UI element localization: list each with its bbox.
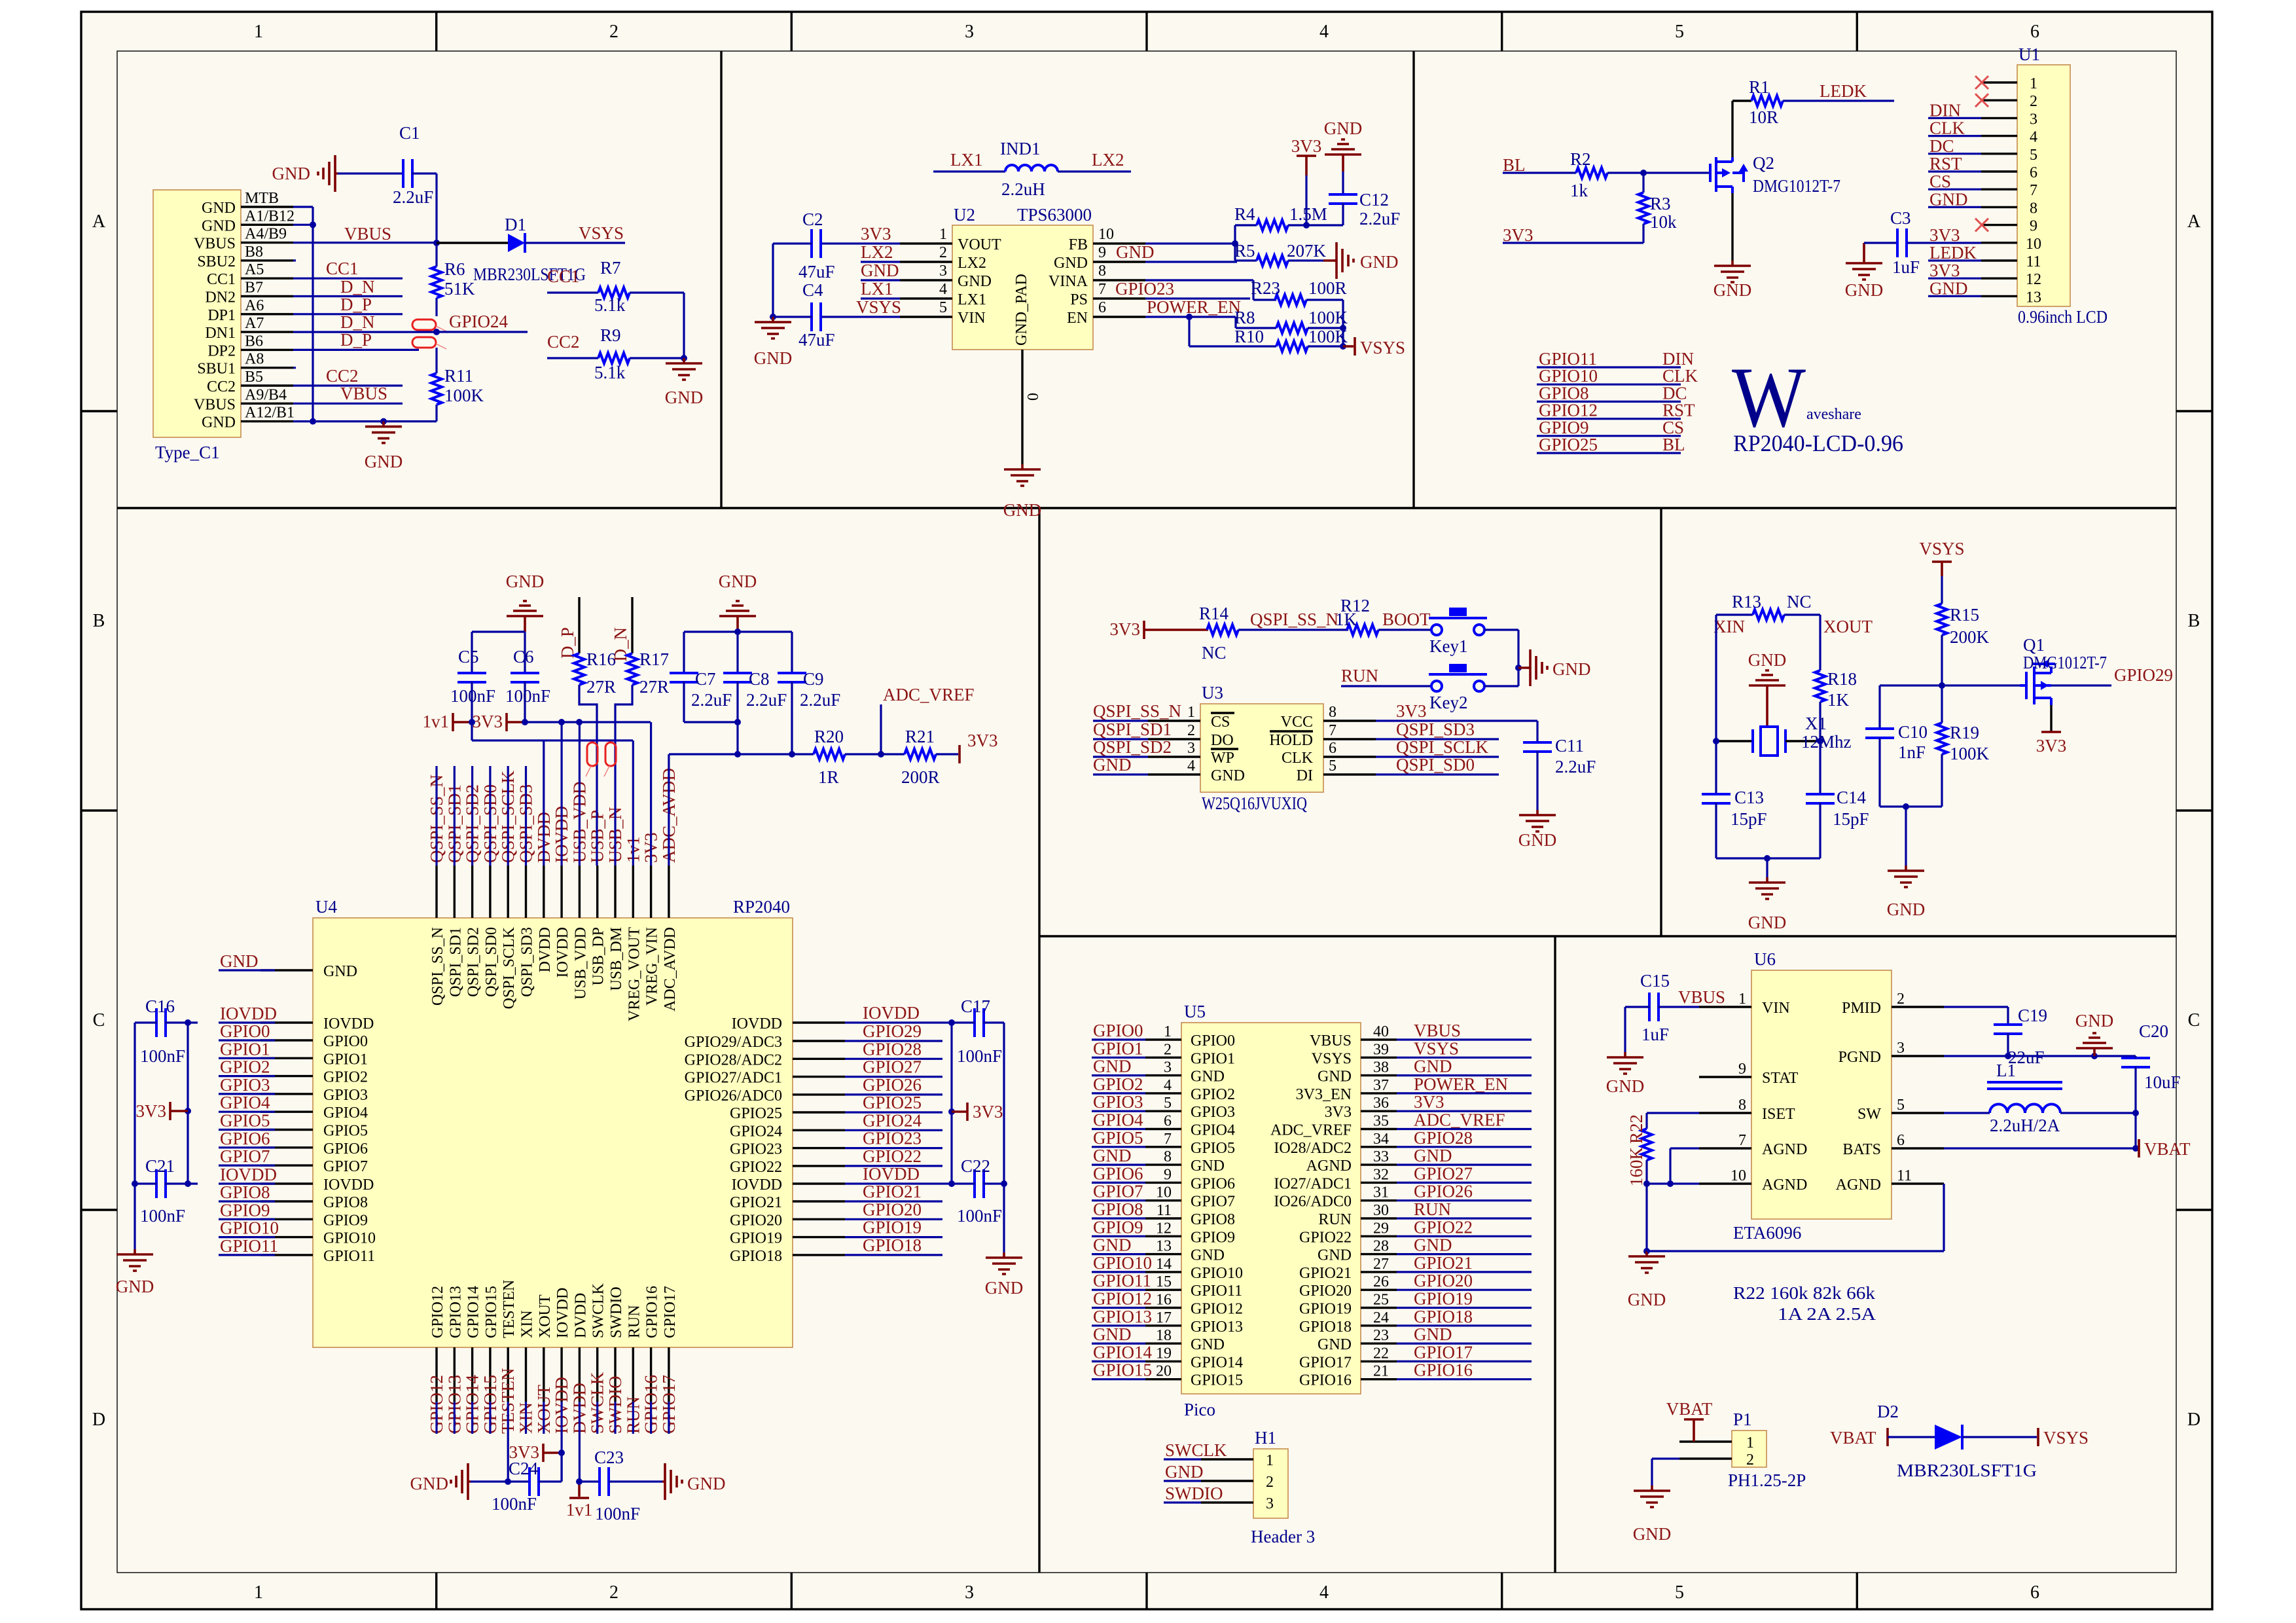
svg-text:A1/B12: A1/B12 <box>245 208 295 225</box>
svg-text:35: 35 <box>1373 1113 1389 1130</box>
svg-text:TESTEN: TESTEN <box>501 1280 518 1338</box>
svg-text:LX2: LX2 <box>861 242 893 262</box>
svg-text:10: 10 <box>1098 226 1114 243</box>
svg-text:R4: R4 <box>1234 204 1255 224</box>
U4 right pin GPIO20 <box>793 1218 845 1220</box>
svg-text:GND: GND <box>1093 1235 1132 1255</box>
wire AGND10 <box>1647 1182 1699 1184</box>
ground below crystal <box>1766 858 1768 877</box>
svg-text:GPIO10: GPIO10 <box>323 1230 376 1247</box>
svg-text:VSYS: VSYS <box>2043 1428 2089 1448</box>
wire <box>560 1402 562 1482</box>
wire <box>861 279 900 281</box>
svg-text:C1: C1 <box>399 123 420 143</box>
wire <box>579 1402 581 1482</box>
svg-text:R7: R7 <box>600 258 621 278</box>
svg-text:GND: GND <box>1633 1524 1672 1544</box>
power VSYS <box>1343 345 1354 348</box>
svg-text:IOVDD: IOVDD <box>732 1176 782 1194</box>
wire ADC_VREF <box>880 704 882 754</box>
svg-text:21: 21 <box>1373 1363 1389 1380</box>
wire <box>293 313 403 315</box>
svg-text:GPIO29: GPIO29 <box>863 1021 922 1041</box>
U6 pin 2 PMID <box>1892 1006 1944 1008</box>
svg-text:GPIO5: GPIO5 <box>323 1123 368 1140</box>
svg-text:GND: GND <box>1414 1235 1452 1255</box>
svg-text:VBUS: VBUS <box>344 224 391 244</box>
junction <box>734 629 741 635</box>
svg-text:GND: GND <box>1093 1324 1132 1344</box>
U4 right pin IOVDD <box>793 1182 845 1184</box>
svg-text:6: 6 <box>1897 1132 1905 1149</box>
svg-text:24: 24 <box>1373 1309 1389 1326</box>
U5 pin 4 GPIO2 <box>1145 1092 1181 1094</box>
svg-text:GPIO29: GPIO29 <box>2114 665 2173 685</box>
svg-text:A: A <box>92 211 106 232</box>
U2 pin 8 VINA <box>1093 279 1145 281</box>
U4 bottom pin XOUT <box>543 1347 545 1402</box>
wire C10-R19 gnd bus <box>1880 805 1942 807</box>
U4 top pin VREG_VOUT <box>632 866 634 918</box>
svg-text:17: 17 <box>1156 1309 1172 1326</box>
svg-text:12Mhz: 12Mhz <box>1801 732 1852 752</box>
svg-text:3V3_EN: 3V3_EN <box>1296 1086 1352 1103</box>
svg-text:POWER_EN: POWER_EN <box>1147 297 1241 317</box>
svg-text:IOVDD: IOVDD <box>323 1176 374 1194</box>
ground at U2 pad <box>1004 464 1041 486</box>
svg-text:GPIO11: GPIO11 <box>220 1236 278 1256</box>
svg-text:IND1: IND1 <box>1000 139 1041 158</box>
U4 bottom pin GPIO12 <box>435 1347 437 1402</box>
svg-text:47uF: 47uF <box>798 330 835 350</box>
svg-text:QSPI_SD0: QSPI_SD0 <box>1396 755 1475 775</box>
U4 right pin GPIO22 <box>793 1165 845 1167</box>
svg-text:QSPI_SCLK: QSPI_SCLK <box>501 926 518 1009</box>
svg-text:GND_PAD: GND_PAD <box>1013 274 1030 346</box>
svg-text:GND: GND <box>116 1277 154 1296</box>
svg-text:GPIO8: GPIO8 <box>220 1182 270 1202</box>
wire <box>1503 242 1643 244</box>
svg-text:VSYS: VSYS <box>856 297 901 317</box>
capacitor C2 <box>812 229 821 258</box>
junction <box>1232 240 1238 247</box>
capacitor C20 <box>2121 1058 2150 1067</box>
junction <box>1764 855 1770 862</box>
svg-text:GPIO29/ADC3: GPIO29/ADC3 <box>685 1034 782 1051</box>
svg-text:4: 4 <box>1319 22 1329 42</box>
svg-text:6: 6 <box>1329 740 1336 757</box>
power 1v1 <box>578 1482 581 1497</box>
svg-text:GPIO20: GPIO20 <box>730 1212 782 1229</box>
svg-text:2: 2 <box>2030 93 2037 110</box>
svg-text:ADC_VREF: ADC_VREF <box>883 685 975 704</box>
svg-text:VBAT: VBAT <box>1666 1399 1713 1419</box>
svg-text:R19: R19 <box>1950 723 1979 742</box>
svg-text:GND: GND <box>1054 255 1088 272</box>
svg-text:40: 40 <box>1373 1023 1389 1040</box>
wire <box>293 420 437 422</box>
svg-text:1nF: 1nF <box>1898 742 1926 762</box>
U4 left pin GND <box>260 969 313 971</box>
section divider vertical rp2040-flash <box>1038 508 1040 1573</box>
U3 pin 6 CLK <box>1323 756 1376 757</box>
svg-text:5: 5 <box>1675 22 1684 42</box>
U2 pin 1 VOUT <box>900 242 952 244</box>
svg-text:5.1k: 5.1k <box>594 295 626 315</box>
svg-text:7: 7 <box>1329 722 1336 739</box>
U5 pin 13 GND <box>1145 1253 1181 1255</box>
wire XIN vertical <box>1715 615 1717 795</box>
wire AGND7 <box>1670 1147 1699 1149</box>
svg-text:GND: GND <box>1887 900 1926 919</box>
svg-text:Key2: Key2 <box>1429 693 1467 712</box>
svg-text:100nF: 100nF <box>595 1504 640 1523</box>
svg-text:QSPI_SS_N: QSPI_SS_N <box>429 927 446 1006</box>
U2 pin 10 FB <box>1093 242 1145 244</box>
svg-text:USB_DM: USB_DM <box>608 927 625 991</box>
svg-text:GND: GND <box>202 200 236 217</box>
svg-text:AGND: AGND <box>1762 1176 1807 1194</box>
resistor R5 <box>1235 259 1257 261</box>
svg-text:GND: GND <box>754 348 793 368</box>
svg-text:HOLD: HOLD <box>1269 732 1313 749</box>
svg-text:10: 10 <box>1156 1184 1172 1201</box>
svg-text:DN2: DN2 <box>205 289 236 306</box>
svg-text:3V3: 3V3 <box>1929 225 1960 245</box>
wire right gnd bus <box>1003 1023 1005 1252</box>
svg-text:3V3: 3V3 <box>473 712 503 731</box>
svg-text:SWCLK: SWCLK <box>1165 1440 1227 1460</box>
junction <box>2132 1110 2139 1116</box>
svg-text:GND: GND <box>365 452 403 471</box>
capacitor C24 <box>471 1480 529 1482</box>
resistor R4 <box>1235 224 1257 226</box>
svg-text:12: 12 <box>2026 271 2041 288</box>
svg-text:C22: C22 <box>961 1156 990 1176</box>
svg-text:GPIO18: GPIO18 <box>1414 1307 1473 1326</box>
svg-text:6: 6 <box>1164 1113 1172 1130</box>
wire <box>293 384 403 386</box>
svg-text:GPIO13: GPIO13 <box>1191 1319 1243 1336</box>
wire <box>1341 685 1431 687</box>
wire <box>454 766 456 866</box>
svg-text:GPIO19: GPIO19 <box>863 1218 922 1237</box>
capacitor C8 <box>736 632 738 674</box>
svg-text:LX1: LX1 <box>950 150 983 170</box>
svg-text:1: 1 <box>254 22 263 42</box>
diff pair marker <box>605 742 616 766</box>
junction <box>310 221 316 228</box>
svg-text:MTB: MTB <box>245 190 279 207</box>
svg-text:C24: C24 <box>509 1459 539 1478</box>
capacitor C7 <box>683 632 685 674</box>
svg-text:VBAT: VBAT <box>2144 1139 2191 1159</box>
svg-text:100K: 100K <box>444 386 484 405</box>
svg-text:GPIO0: GPIO0 <box>323 1033 368 1050</box>
svg-text:U1: U1 <box>2018 45 2040 64</box>
U5 pin 5 GPIO3 <box>1145 1110 1181 1112</box>
svg-text:6: 6 <box>2030 1582 2039 1603</box>
svg-text:FB: FB <box>1069 236 1088 253</box>
svg-text:100nF: 100nF <box>957 1206 1002 1226</box>
U5 pin 20 GPIO15 <box>1145 1378 1181 1380</box>
resistor R21 <box>905 749 936 759</box>
svg-text:10: 10 <box>1731 1167 1746 1184</box>
P1 pin 2 <box>1679 1457 1732 1459</box>
U4 bottom pin XIN <box>525 1347 527 1402</box>
svg-text:2: 2 <box>609 22 619 42</box>
svg-text:DMG1012T-7: DMG1012T-7 <box>2023 653 2107 672</box>
U5 pin 37 3V3_EN <box>1361 1092 1397 1094</box>
U4 left pin GPIO5 <box>260 1129 313 1131</box>
svg-text:CLK: CLK <box>1282 750 1314 767</box>
svg-text:GPIO24: GPIO24 <box>730 1123 782 1140</box>
svg-text:1: 1 <box>1746 1434 1754 1451</box>
wire C2-C4 bus <box>773 242 812 244</box>
transistor Q2 DMG1012T-7 <box>1710 157 1716 192</box>
svg-text:BL: BL <box>1662 435 1685 454</box>
svg-text:SBU2: SBU2 <box>197 253 236 270</box>
U5 pin 39 VSYS <box>1361 1057 1397 1059</box>
svg-text:9: 9 <box>1738 1061 1746 1078</box>
svg-text:GND: GND <box>719 572 757 591</box>
svg-text:CC2: CC2 <box>547 332 580 352</box>
wire <box>543 1402 545 1434</box>
wire <box>293 403 403 405</box>
svg-text:IO28/ADC2: IO28/ADC2 <box>1274 1140 1352 1157</box>
svg-text:GND: GND <box>272 164 311 183</box>
svg-text:B6: B6 <box>245 333 263 350</box>
svg-text:ADC_VREF: ADC_VREF <box>1414 1110 1505 1130</box>
wire R23-R8-R10 <box>1342 300 1344 346</box>
U5 pin 24 GPIO18 <box>1361 1324 1397 1326</box>
resistor R8 <box>1236 327 1276 329</box>
svg-text:GPIO5: GPIO5 <box>1191 1140 1235 1157</box>
U6 pin 10 AGND <box>1699 1182 1751 1184</box>
ground right bus <box>986 1252 1022 1274</box>
ground at C3 <box>1863 243 1865 258</box>
svg-text:GND: GND <box>1191 1158 1225 1175</box>
svg-text:CC1: CC1 <box>547 266 580 286</box>
svg-text:VSYS: VSYS <box>1414 1038 1459 1058</box>
ground at Q2 <box>1731 193 1733 261</box>
svg-text:160K: 160K <box>1626 1147 1646 1187</box>
svg-text:DP1: DP1 <box>207 307 236 324</box>
svg-text:R5: R5 <box>1234 241 1255 261</box>
wire EN <box>1145 316 1236 318</box>
svg-text:U2: U2 <box>954 205 975 225</box>
svg-text:GPIO22: GPIO22 <box>730 1159 782 1176</box>
svg-text:11: 11 <box>1897 1167 1912 1184</box>
U4 bottom pin DVDD <box>579 1347 581 1402</box>
svg-text:GPIO14: GPIO14 <box>465 1286 482 1338</box>
svg-text:ADC_VREF: ADC_VREF <box>1270 1122 1352 1139</box>
svg-text:GPIO1: GPIO1 <box>323 1051 368 1068</box>
wire GPIO29 row <box>1880 684 2020 686</box>
svg-text:R22 160k 82k 66k: R22 160k 82k 66k <box>1733 1283 1876 1303</box>
ground at R9 <box>666 358 702 380</box>
svg-text:D: D <box>2187 1410 2200 1430</box>
svg-text:3: 3 <box>2030 111 2037 128</box>
svg-text:9: 9 <box>1098 244 1106 261</box>
svg-text:CC2: CC2 <box>207 378 236 395</box>
svg-text:GPIO27: GPIO27 <box>863 1057 922 1077</box>
svg-text:GND: GND <box>1324 119 1363 138</box>
svg-text:X1: X1 <box>1805 714 1827 733</box>
svg-text:1: 1 <box>2030 75 2037 92</box>
U6 pin 6 BATS <box>1892 1147 1944 1149</box>
U5 pin 26 GPIO20 <box>1361 1288 1397 1290</box>
U2 pin 5 VIN <box>900 316 952 318</box>
junction <box>1640 170 1647 176</box>
svg-text:RP2040-LCD-0.96: RP2040-LCD-0.96 <box>1733 430 1903 456</box>
wire <box>668 754 670 866</box>
svg-text:2: 2 <box>1266 1474 1274 1491</box>
svg-text:GPIO8: GPIO8 <box>323 1194 368 1211</box>
wire <box>471 766 473 866</box>
svg-text:BATS: BATS <box>1842 1141 1881 1158</box>
svg-text:USB_VDD: USB_VDD <box>572 927 589 1000</box>
svg-text:10k: 10k <box>1650 212 1677 232</box>
svg-text:GND: GND <box>1191 1247 1225 1264</box>
U4 top pin VREG_VIN <box>650 866 652 918</box>
svg-text:3V3: 3V3 <box>1291 136 1322 156</box>
U4 left pin GPIO6 <box>260 1146 313 1148</box>
svg-text:GPIO9: GPIO9 <box>1191 1229 1235 1246</box>
svg-text:GPIO6: GPIO6 <box>1191 1175 1235 1192</box>
capacitor C23 <box>579 1480 600 1482</box>
svg-text:1: 1 <box>1738 991 1746 1008</box>
wire <box>293 259 296 261</box>
svg-text:GPIO6: GPIO6 <box>220 1129 270 1148</box>
svg-text:RUN: RUN <box>626 1305 643 1338</box>
capacitor C13 <box>1702 794 1731 803</box>
power VBAT <box>2138 1139 2140 1158</box>
svg-text:GND: GND <box>985 1278 1024 1298</box>
svg-text:GPIO1: GPIO1 <box>220 1039 270 1059</box>
U4 top pin QSPI_SCLK <box>507 866 509 918</box>
svg-text:12: 12 <box>1156 1220 1172 1237</box>
svg-text:R21: R21 <box>905 727 935 746</box>
svg-text:GPIO12: GPIO12 <box>429 1286 446 1338</box>
U3 pin 8 VCC <box>1323 720 1376 721</box>
wire GND bus vertical <box>312 207 314 422</box>
svg-text:GND: GND <box>1845 280 1884 300</box>
svg-text:C3: C3 <box>1890 208 1911 228</box>
svg-text:R2: R2 <box>1570 149 1591 169</box>
U4 left pin GPIO9 <box>260 1218 313 1220</box>
svg-text:U6: U6 <box>1754 949 1776 969</box>
svg-text:2.2uF: 2.2uF <box>393 187 433 207</box>
IC U6 ETA6096 <box>1751 970 1892 1219</box>
svg-text:4: 4 <box>939 281 947 298</box>
U4 bottom pin SWDIO <box>614 1347 616 1402</box>
svg-text:RP2040: RP2040 <box>733 897 790 917</box>
svg-text:SBU1: SBU1 <box>197 361 236 378</box>
U1 pin 10 <box>1981 242 2017 244</box>
svg-text:27R: 27R <box>586 677 616 697</box>
svg-text:5.1k: 5.1k <box>594 363 626 382</box>
U4 left pin IOVDD <box>260 1021 313 1023</box>
wire <box>525 766 527 866</box>
svg-text:R22: R22 <box>1626 1114 1646 1144</box>
ground at keys <box>1518 666 1530 669</box>
svg-text:XIN: XIN <box>519 1310 536 1338</box>
svg-text:20: 20 <box>1156 1363 1172 1380</box>
U3 pin 4 GND <box>1148 773 1200 775</box>
U5 pin 28 GND <box>1361 1253 1397 1255</box>
svg-text:QSPI_SS_N: QSPI_SS_N <box>1093 701 1181 721</box>
svg-text:R9: R9 <box>600 325 621 345</box>
svg-text:13: 13 <box>2026 289 2041 306</box>
svg-text:GPIO25: GPIO25 <box>730 1105 782 1122</box>
ground left bus <box>117 1249 153 1271</box>
svg-text:3V3: 3V3 <box>1396 701 1427 721</box>
capacitor C4 <box>812 302 821 331</box>
svg-text:0: 0 <box>1025 393 1042 401</box>
U4 left pin GPIO4 <box>260 1110 313 1112</box>
wire <box>579 722 581 866</box>
svg-text:R3: R3 <box>1650 194 1671 213</box>
U4 left pin GPIO10 <box>260 1236 313 1238</box>
svg-text:GPIO24: GPIO24 <box>863 1110 922 1130</box>
svg-text:VIN: VIN <box>958 310 986 327</box>
capacitor C1 <box>338 172 404 174</box>
U4 right pin GPIO21 <box>793 1200 845 1202</box>
svg-text:QSPI_SD1: QSPI_SD1 <box>1093 720 1172 739</box>
U4 top pin QSPI_SD1 <box>454 866 456 918</box>
svg-text:C19: C19 <box>2018 1006 2047 1025</box>
svg-text:A6: A6 <box>245 297 264 314</box>
U5 pin 22 GPIO17 <box>1361 1360 1397 1362</box>
svg-text:23: 23 <box>1373 1327 1389 1344</box>
wire <box>293 278 403 280</box>
U2 pin 3 GND <box>900 279 952 281</box>
junction <box>1643 1180 1650 1187</box>
svg-text:4: 4 <box>1187 757 1195 775</box>
wire SW row <box>1944 1112 1990 1114</box>
svg-text:SWCLK: SWCLK <box>590 1283 607 1338</box>
svg-text:32: 32 <box>1373 1166 1389 1183</box>
svg-text:DN1: DN1 <box>205 325 236 342</box>
wire <box>861 261 900 263</box>
svg-text:GPIO26: GPIO26 <box>1414 1182 1473 1201</box>
U6 pin 5 SW <box>1892 1112 1944 1114</box>
U5 pin 33 AGND <box>1361 1163 1397 1165</box>
capacitor C21 <box>156 1169 166 1198</box>
switch Key1 <box>1431 625 1442 635</box>
svg-text:GPIO22: GPIO22 <box>1414 1217 1473 1237</box>
U4 top pin QSPI_SD0 <box>489 866 491 918</box>
svg-text:4: 4 <box>2030 129 2037 146</box>
svg-text:GPIO12: GPIO12 <box>1093 1289 1152 1309</box>
svg-text:30: 30 <box>1373 1202 1389 1219</box>
svg-text:C16: C16 <box>145 996 175 1016</box>
svg-text:36: 36 <box>1373 1095 1389 1112</box>
svg-text:IOVDD: IOVDD <box>323 1015 374 1032</box>
svg-text:GND: GND <box>1552 659 1591 679</box>
U4 left pin GPIO11 <box>260 1254 313 1256</box>
U4 bottom pin GPIO13 <box>454 1347 456 1402</box>
svg-text:WP: WP <box>1211 750 1234 767</box>
svg-text:AGND: AGND <box>1306 1158 1352 1175</box>
svg-text:PGND: PGND <box>1839 1049 1881 1066</box>
svg-text:GPIO0: GPIO0 <box>1191 1032 1235 1049</box>
resistor R10 <box>1186 314 1193 320</box>
crystal X1 12Mhz <box>1716 740 1753 742</box>
U4 top pin QSPI_SD3 <box>525 866 527 918</box>
svg-text:GPIO6: GPIO6 <box>1093 1163 1143 1183</box>
